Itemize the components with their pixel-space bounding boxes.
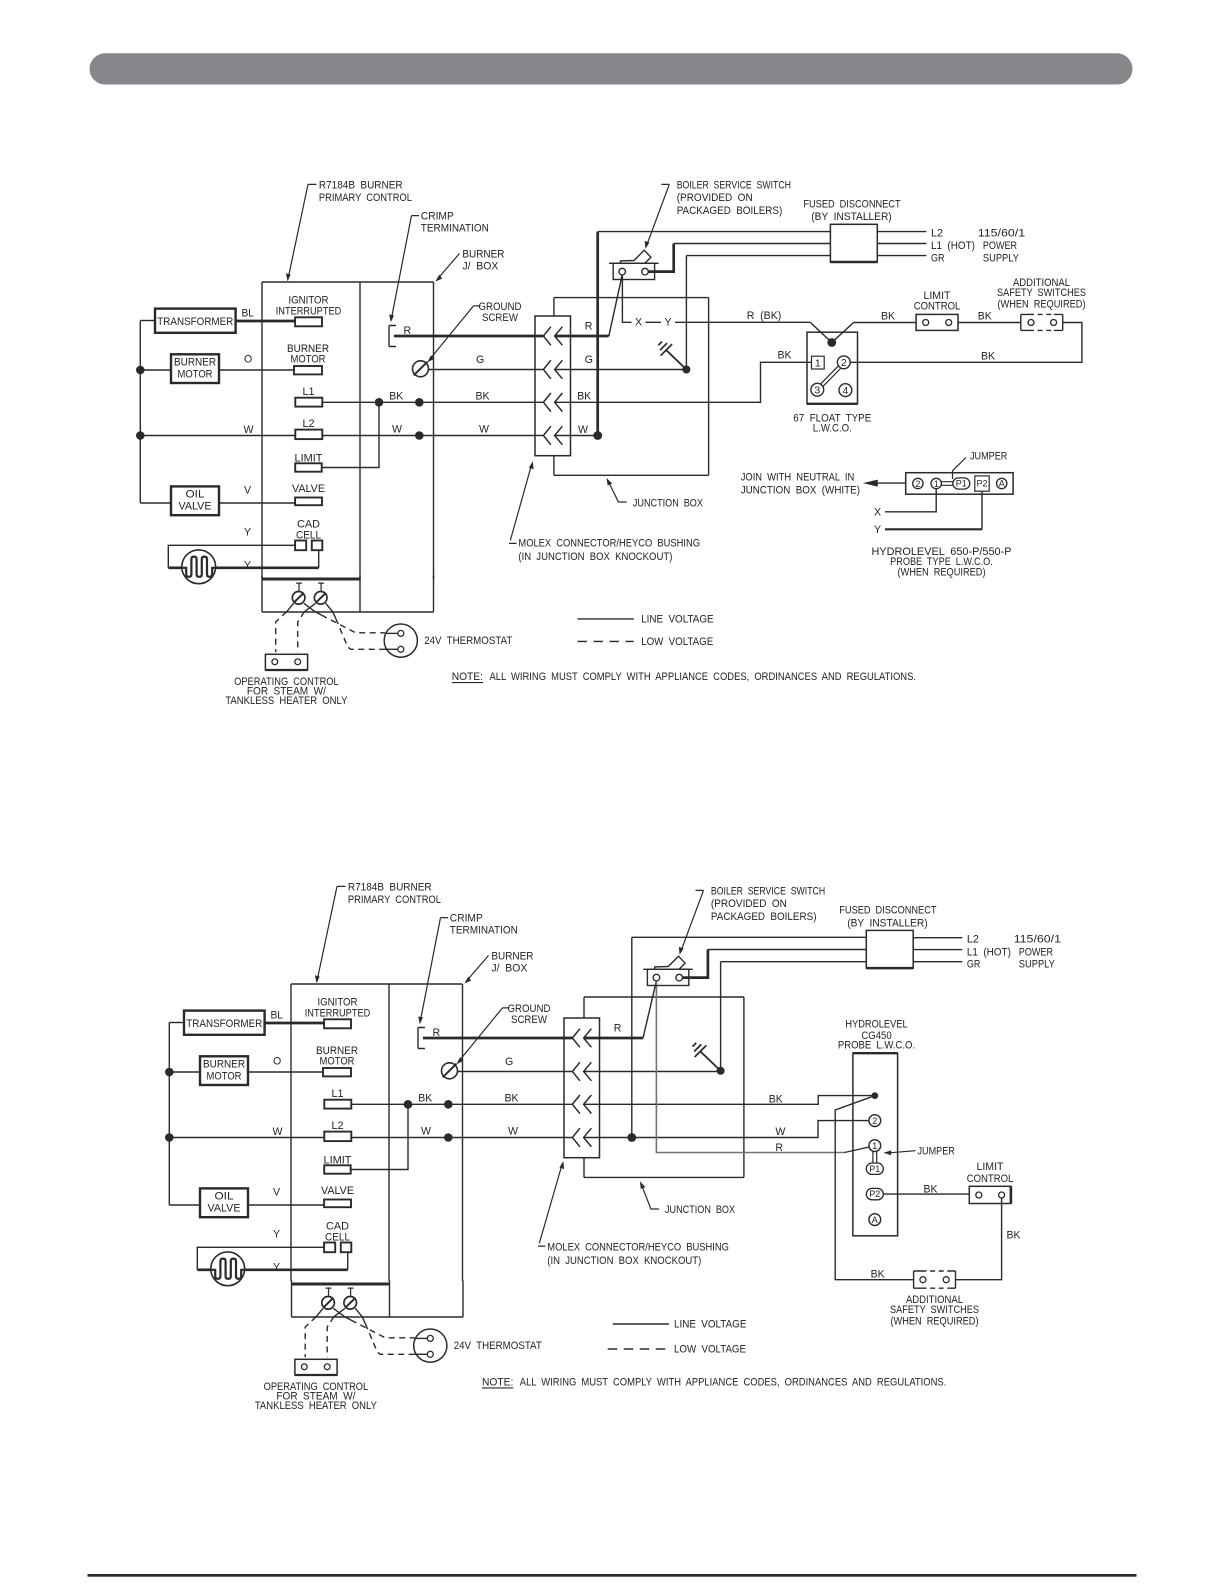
svg-text:1: 1 [815,357,821,369]
svg-text:A: A [872,1215,878,1225]
svg-text:LOW VOLTAGE: LOW VOLTAGE [641,636,713,648]
junction box JB1 [554,298,709,476]
svg-text:BK: BK [778,350,792,362]
wire L1 bus [674,243,831,245]
wire GR bus [721,961,867,963]
fused disconnect assembly [803,199,1025,265]
svg-text:JUMPER: JUMPER [970,450,1008,462]
hydrolevel 650-P strip [906,473,1013,495]
svg-text:BK: BK [924,1183,938,1195]
CG450 terminal 2 [869,1115,881,1127]
ground GND1 [685,256,687,370]
svg-text:(WHEN REQUIRED): (WHEN REQUIRED) [890,1315,978,1327]
strip terminal A [997,478,1007,488]
svg-text:Y: Y [664,317,671,329]
svg-text:R (BK): R (BK) [747,310,782,322]
svg-text:BK: BK [981,351,995,363]
jumper J1 [941,482,952,486]
svg-text:(IN JUNCTION BOX KNOCKOUT): (IN JUNCTION BOX KNOCKOUT) [547,1255,701,1267]
CG450 terminal P1 [866,1163,883,1174]
svg-text:JUNCTION BOX: JUNCTION BOX [633,498,703,510]
svg-text:BK: BK [769,1093,783,1105]
LWCO terminal 1 [812,356,825,369]
CG450 terminal A [869,1214,881,1226]
wire X to strip 1 [885,489,936,512]
svg-text:SAFETY SWITCHES: SAFETY SWITCHES [997,287,1086,299]
svg-text:LINE VOLTAGE: LINE VOLTAGE [641,614,713,626]
wire L2 bus [598,231,831,233]
svg-text:PROBE L.W.C.O.: PROBE L.W.C.O. [838,1040,915,1052]
svg-text:LOW VOLTAGE: LOW VOLTAGE [674,1344,746,1356]
svg-text:P2: P2 [976,479,987,489]
svg-text:JUMPER: JUMPER [918,1146,956,1158]
ground GND2 [720,962,722,1071]
svg-text:Y: Y [874,524,881,536]
svg-text:BK: BK [1007,1229,1021,1241]
svg-text:(WHEN REQUIRED): (WHEN REQUIRED) [997,298,1085,310]
svg-text:(WHEN REQUIRED): (WHEN REQUIRED) [897,567,985,579]
CG450 box [853,1053,898,1236]
wire V drop into LWCO [810,323,853,343]
wire BK continuation to LWCO 1 [555,362,812,402]
LWCO terminal 2 [837,356,850,369]
wire R diagonal to switch [609,275,622,337]
CG450 terminal P2 [866,1188,883,1199]
svg-text:HYDROLEVEL: HYDROLEVEL [845,1018,907,1030]
wire neutral vertical [631,937,633,1137]
wire X-Y from switch [622,275,810,323]
svg-text:BK: BK [577,391,591,403]
header gray bar [90,53,1133,84]
svg-text:2: 2 [915,479,920,489]
limit control LC [916,314,958,330]
svg-text:2: 2 [841,357,847,369]
wire GR bus [686,255,830,257]
LWCO float bar 3 to 2 [821,366,841,386]
svg-text:CONTROL: CONTROL [914,300,961,312]
wire BK safety to CG450 dot [835,1097,913,1280]
svg-text:BK: BK [881,311,895,323]
wire neutral thick vertical [596,232,599,436]
strip terminal 2 [913,478,923,488]
additional safety switches AS [1021,314,1063,330]
svg-text:P1: P1 [956,479,967,489]
svg-text:G: G [585,354,593,366]
wire BK LWCO V to limit control [854,322,917,324]
legend line voltage [613,1323,669,1325]
footer rule [88,1574,1137,1577]
svg-text:4: 4 [842,385,848,397]
svg-text:W: W [578,424,588,436]
svg-text:NOTE:: NOTE: [452,671,483,683]
svg-text:LIMIT: LIMIT [977,1161,1005,1173]
wire R thick continuation [584,1037,643,1040]
wire BK P2 to limit control [883,1193,969,1195]
svg-text:3: 3 [814,385,820,397]
svg-text:2: 2 [872,1116,877,1126]
boiler service switch assembly [609,179,791,279]
LWCO terminal 4 [839,384,852,397]
svg-text:(IN JUNCTION BOX KNOCKOUT): (IN JUNCTION BOX KNOCKOUT) [518,551,672,563]
wire G continuation to ground [555,369,687,371]
wire BK limit to safety [958,322,1021,324]
legend line voltage [578,618,634,620]
wire G continuation to ground [584,1071,721,1073]
svg-text:JUNCTION BOX (WHITE): JUNCTION BOX (WHITE) [741,484,860,496]
wire L2 bus [632,936,867,938]
svg-text:R: R [775,1142,783,1154]
wire BK safety to LWCO 2 [850,323,1082,363]
svg-text:X: X [635,317,642,329]
wire Y to strip P2 [981,491,983,529]
svg-text:L.W.C.O.: L.W.C.O. [813,423,852,435]
svg-text:SAFETY SWITCHES: SAFETY SWITCHES [890,1304,979,1316]
svg-text:ALL WIRING MUST COMPLY WITH AP: ALL WIRING MUST COMPLY WITH APPLIANCE CO… [520,1376,947,1388]
svg-text:NOTE:: NOTE: [482,1376,513,1388]
svg-text:JUNCTION BOX: JUNCTION BOX [665,1204,735,1216]
strip terminal P2 [975,476,989,491]
wire L1 bus [708,949,867,951]
svg-text:A: A [999,479,1005,489]
join with neutral arrow [878,482,906,484]
svg-text:1: 1 [872,1141,877,1151]
LWCO terminal 3 [811,383,824,396]
boiler service switch assembly [643,885,825,985]
wire W continuation to CG450 2 [584,1121,869,1138]
wire R thick continuation [555,335,609,338]
svg-text:LINE VOLTAGE: LINE VOLTAGE [674,1319,746,1331]
LWCO 67 float box [807,332,858,404]
svg-text:1: 1 [934,479,939,489]
svg-text:BK: BK [978,311,992,323]
additional safety switches AS2 [914,1271,956,1288]
svg-text:JOIN WITH NEUTRAL IN: JOIN WITH NEUTRAL IN [741,472,855,484]
jumper J2 [873,1152,877,1163]
legend low voltage [608,1348,668,1350]
svg-text:P2: P2 [869,1189,880,1199]
svg-text:BK: BK [871,1269,885,1281]
svg-text:CONTROL: CONTROL [967,1173,1014,1185]
svg-text:P1: P1 [869,1164,880,1174]
wire BK limit down to safety [956,1198,1002,1280]
wire BK continuation to CG450 dot [584,1096,872,1105]
svg-text:ALL WIRING MUST COMPLY WITH AP: ALL WIRING MUST COMPLY WITH APPLIANCE CO… [490,671,917,683]
svg-text:MOLEX CONNECTOR/HEYCO BUSHING: MOLEX CONNECTOR/HEYCO BUSHING [518,538,700,550]
strip terminal 1 [931,478,941,488]
limit control LC2 [969,1186,1011,1203]
svg-text:X: X [874,507,881,519]
svg-text:W: W [775,1126,785,1138]
junction box JB2 [584,997,744,1177]
fused disconnect assembly [839,905,1061,971]
wire R gray drop to CG450 1 [656,982,844,1153]
wire R diagonal to switch [643,981,656,1038]
strip terminal P1 [953,478,970,489]
svg-text:MOLEX CONNECTOR/HEYCO BUSHING: MOLEX CONNECTOR/HEYCO BUSHING [547,1242,729,1254]
CG450 terminal 1 [869,1140,881,1152]
wire W continuation [555,435,598,437]
CG450 dot terminal [871,1092,878,1099]
legend low voltage [578,640,634,642]
